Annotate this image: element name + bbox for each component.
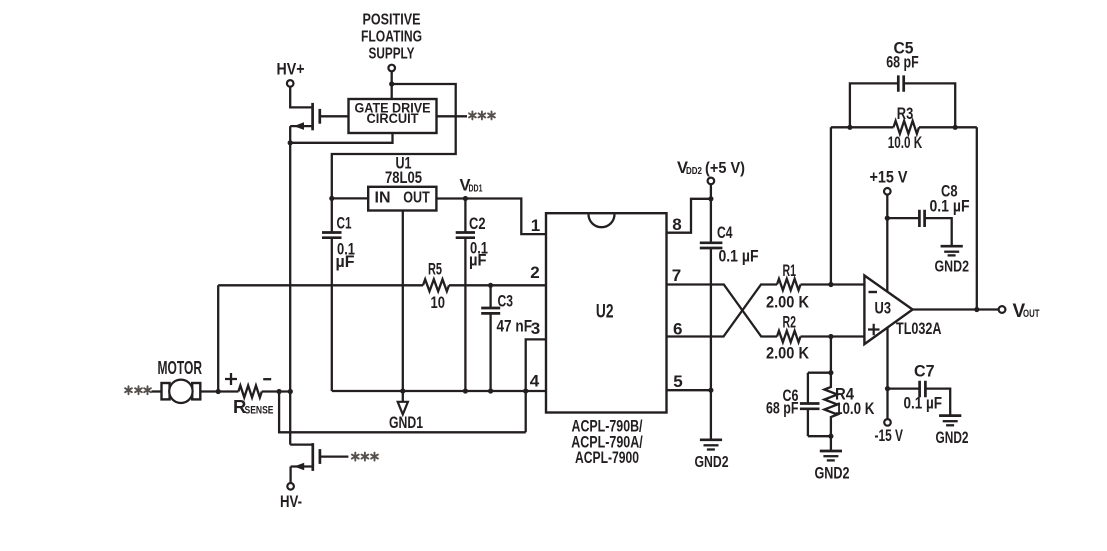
capacitor C8 — [887, 183, 969, 246]
svg-text:C2: C2 — [469, 215, 486, 233]
svg-text:2.00 K: 2.00 K — [766, 294, 809, 312]
svg-text:0.1 µF: 0.1 µF — [719, 248, 759, 266]
block GATE DRIVE CIRCUIT — [349, 99, 437, 133]
junction RSENSE minus — [277, 389, 282, 394]
svg-text:2: 2 — [530, 263, 539, 282]
svg-text:GND2: GND2 — [936, 429, 969, 447]
capacitor C1 — [322, 198, 355, 391]
capacitor C6 — [766, 373, 820, 437]
capacitor C4 — [700, 199, 759, 439]
svg-text:FLOATING: FLOATING — [361, 29, 422, 46]
svg-text:10: 10 — [431, 294, 446, 312]
svg-text:OUT: OUT — [1023, 308, 1040, 320]
wire GND1 bus — [332, 390, 546, 392]
resistor R1 — [766, 262, 809, 312]
svg-text:SUPPLY: SUPPLY — [369, 46, 416, 63]
svg-text:CIRCUIT: CIRCUIT — [367, 111, 420, 126]
wire supply to gate drive box — [391, 71, 393, 99]
svg-text:-15 V: -15 V — [875, 427, 904, 445]
node *** Q2 gate stars — [352, 453, 378, 461]
wire HV+ to Q1 drain — [290, 87, 312, 108]
IC U2 ACPL-790B isolation amplifier body — [546, 213, 667, 412]
junction non-inverting input node — [828, 334, 833, 339]
wire motor left stub — [152, 390, 162, 392]
svg-text:MOTOR: MOTOR — [158, 357, 203, 378]
svg-text:GND2: GND2 — [935, 259, 970, 276]
capacitor C7 — [888, 363, 951, 416]
regulator U1 78L05 — [368, 155, 436, 211]
terminal POSITIVE FLOATING SUPPLY — [388, 65, 395, 72]
svg-text:C1: C1 — [337, 215, 352, 233]
junction sense tap — [216, 389, 221, 394]
svg-text:2.00 K: 2.00 K — [766, 345, 809, 363]
svg-text:GND2: GND2 — [815, 465, 850, 483]
svg-text:C4: C4 — [717, 224, 733, 242]
resistor R2 — [766, 314, 809, 363]
svg-text:U2: U2 — [596, 302, 614, 323]
wire non-inverting node down to R4/C6 — [830, 337, 832, 373]
wire Q1 source down to phase node and lower MOSFET drain — [289, 126, 291, 445]
wire op-amp output — [913, 308, 999, 310]
wire Q2 source to HV- — [289, 467, 291, 484]
svg-text:8: 8 — [672, 215, 681, 234]
svg-text:R1: R1 — [783, 262, 797, 280]
svg-text:µF: µF — [336, 253, 355, 271]
capacitor C2 — [456, 199, 488, 392]
resistor RSENSE — [233, 386, 274, 418]
svg-text:R3: R3 — [897, 105, 914, 123]
ground GND2 below C4 — [695, 440, 729, 471]
svg-text:(+5 V): (+5 V) — [705, 160, 745, 177]
wire U1 OUT to VDD1 and U2 pin 1 — [436, 199, 546, 235]
junction R4/C6 bottom — [828, 434, 833, 439]
svg-text:POSITIVE: POSITIVE — [363, 12, 421, 29]
junction Q1 source / gate drive return — [288, 140, 293, 145]
svg-text:4: 4 — [530, 372, 540, 391]
junction C3 top node — [488, 283, 493, 288]
svg-text:C3: C3 — [498, 293, 514, 311]
junction output feedback node — [974, 307, 979, 312]
node VDD2 (+5 V) label — [677, 159, 745, 177]
transistor Q2 (low-side MOSFET) — [290, 443, 320, 471]
svg-text:OUT: OUT — [403, 190, 430, 207]
svg-text:HV+: HV+ — [277, 61, 305, 79]
wire U1 ground lead — [402, 211, 404, 392]
junction C3 on bus — [488, 388, 493, 393]
svg-text:3: 3 — [531, 319, 540, 338]
motor M1 — [158, 357, 203, 403]
node + polarity mark — [225, 373, 237, 385]
junction R4/C6 top — [828, 370, 833, 375]
svg-text:0.1 µF: 0.1 µF — [930, 198, 970, 216]
terminal -15 V — [884, 419, 891, 426]
junction C5 right on R3 line — [953, 125, 958, 130]
ground GND2 below C7 — [936, 416, 969, 447]
terminal VDD2 — [708, 178, 715, 185]
wire U2 pin 3 — [526, 339, 546, 432]
ground GND1 arrow — [389, 391, 423, 432]
node VDD1 label — [460, 177, 483, 195]
svg-text:ACPL-7900: ACPL-7900 — [575, 449, 639, 467]
ground GND2 below C8 — [935, 246, 970, 275]
capacitor C5 — [850, 40, 955, 128]
svg-text:10.0 K: 10.0 K — [835, 400, 875, 418]
svg-text:DD1: DD1 — [469, 184, 483, 195]
wire U2 pin 8 to VDD2 — [667, 199, 711, 233]
junction -15V decoupling node — [885, 386, 890, 391]
svg-text:GND2: GND2 — [695, 454, 729, 471]
junction supply node — [389, 81, 394, 86]
op-amp U3 — [864, 276, 912, 345]
wire R2 to op-amp non-inverting input — [801, 335, 865, 337]
wire motor to phase node with RSENSE — [200, 390, 290, 392]
junction pin3/pin4 node on bus — [523, 388, 528, 393]
svg-text:10.0 K: 10.0 K — [888, 134, 923, 152]
svg-text:TL032A: TL032A — [896, 320, 942, 338]
wire C6 bottom bar — [808, 435, 831, 437]
node *** motor lead stars — [125, 386, 151, 394]
node VOUT label — [1013, 301, 1040, 322]
junction C5 left on R3 line — [847, 125, 852, 130]
junction U1 gnd on bus — [400, 388, 405, 393]
node ACPL part labels — [571, 418, 643, 468]
wire U2 pin 5 — [667, 389, 711, 391]
svg-text:1: 1 — [531, 216, 540, 235]
wire VDD2 terminal lead — [710, 184, 712, 199]
svg-text:7: 7 — [672, 266, 681, 285]
svg-text:C7: C7 — [914, 363, 935, 381]
wire R1 to op-amp inverting input — [801, 283, 865, 285]
terminal +15 V — [884, 188, 891, 195]
junction VDD2 node — [708, 196, 713, 201]
wire Q2 gate — [320, 455, 349, 457]
node POSITIVE FLOATING SUPPLY label — [361, 12, 422, 63]
resistor R5 — [423, 261, 449, 313]
node - polarity mark — [263, 378, 271, 380]
svg-text:R2: R2 — [783, 314, 797, 332]
wire supply to 78L05 input — [332, 84, 456, 198]
wire +15V supply to op-amp — [886, 195, 888, 292]
wire feedback from inverting node up to R3 — [830, 127, 832, 284]
resistor R4 — [824, 373, 874, 437]
junction C2 on bus — [463, 388, 468, 393]
svg-text:µF: µF — [469, 252, 487, 270]
junction U1 IN node — [329, 196, 334, 201]
svg-text:5: 5 — [673, 372, 682, 391]
svg-text:0.1 µF: 0.1 µF — [904, 395, 943, 413]
svg-text:GND1: GND1 — [389, 413, 423, 432]
junction phase node — [288, 389, 293, 394]
svg-text:47 nF: 47 nF — [497, 318, 533, 336]
svg-text:HV-: HV- — [280, 493, 302, 511]
resistor R3 — [888, 105, 923, 152]
transistor Q1 (high-side MOSFET) — [290, 103, 320, 130]
svg-text:78L05: 78L05 — [385, 169, 422, 187]
wire U2 pin 6 cross to R2 top — [667, 285, 778, 337]
wire into U1 IN — [332, 197, 368, 199]
svg-text:IN: IN — [375, 190, 391, 207]
wire Q1 gate to gate drive circuit — [320, 115, 349, 117]
terminal VOUT — [999, 306, 1006, 313]
svg-text:U3: U3 — [875, 300, 892, 318]
terminal HV- — [287, 483, 294, 490]
wire sense line down to motor node — [217, 285, 219, 391]
wire gate drive return — [290, 133, 392, 143]
wire feedback right leg to output — [976, 127, 978, 309]
wire gate drive circuit output — [437, 115, 468, 117]
wire C6 top bar — [808, 372, 831, 374]
junction VDD1 node — [463, 196, 468, 201]
wire U2 pin 2 line with R5 — [218, 284, 546, 286]
svg-text:DD2: DD2 — [686, 166, 702, 177]
junction inverting input node — [828, 282, 833, 287]
wire -15V supply from op-amp — [886, 328, 888, 420]
junction +15V decoupling node — [885, 216, 890, 221]
terminal HV+ — [287, 80, 294, 87]
wire R3 line — [831, 126, 977, 128]
wire RSENSE return loop — [279, 392, 526, 433]
svg-text:68 pF: 68 pF — [766, 400, 799, 418]
wire U2 pin 7 cross to R1 — [667, 285, 778, 337]
svg-text:+15 V: +15 V — [870, 169, 908, 187]
svg-text:SENSE: SENSE — [245, 405, 274, 417]
capacitor C3 — [481, 285, 532, 391]
node *** gate drive output stars — [469, 111, 495, 119]
junction pin 5 / C4 ground node — [708, 388, 713, 393]
svg-text:R5: R5 — [428, 261, 442, 279]
ground GND2 below R4 — [815, 451, 850, 483]
wire to GND2 below R4 — [830, 436, 832, 450]
svg-text:68 pF: 68 pF — [886, 54, 919, 72]
